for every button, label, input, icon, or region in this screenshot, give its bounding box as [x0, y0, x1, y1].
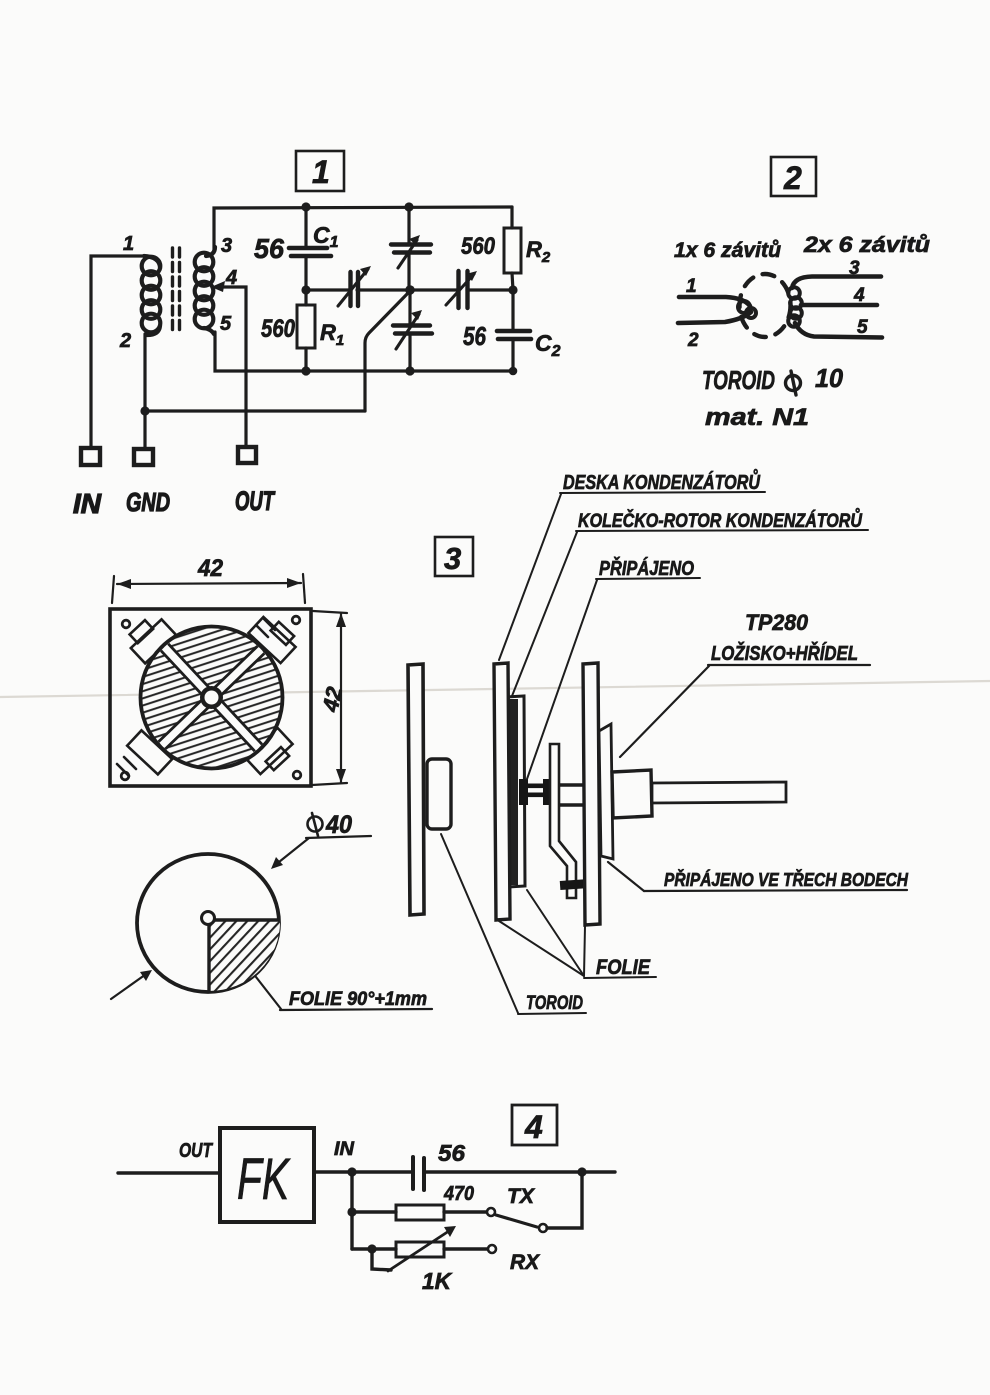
- svg-text:4: 4: [853, 285, 865, 306]
- svg-text:KOLEČKO-ROTOR KONDENZÁTORŮ: KOLEČKO-ROTOR KONDENZÁTORŮ: [578, 509, 863, 532]
- solder cross mark: [560, 879, 592, 890]
- svg-text:TOROID: TOROID: [702, 365, 775, 395]
- svg-text:560: 560: [261, 315, 295, 343]
- svg-text:1K: 1K: [422, 1268, 452, 1294]
- svg-text:IN: IN: [73, 488, 102, 519]
- rotor center hub: [200, 686, 223, 709]
- primary winding turns: [738, 301, 750, 313]
- wire branch TX: [352, 1210, 396, 1213]
- figure label box 1: [296, 151, 344, 191]
- bearing block: [612, 770, 652, 818]
- svg-text:40: 40: [325, 811, 352, 839]
- resistor 470: [396, 1205, 444, 1220]
- svg-text:TOROID: TOROID: [526, 993, 583, 1014]
- trimmer capacitor CT3 bottom center: [393, 290, 432, 371]
- rotor disc with hatched sectors: [141, 627, 283, 769]
- trimmer capacitor CT2 top center: [391, 207, 431, 290]
- rotor wheel: [506, 696, 525, 887]
- primary winding lead 1: [679, 297, 750, 306]
- terminal OUT: [238, 447, 256, 463]
- potentiometer 1K: [396, 1242, 444, 1257]
- svg-text:1: 1: [686, 276, 697, 297]
- svg-text:1: 1: [312, 154, 330, 190]
- transformer T1 secondary winding: [195, 247, 215, 334]
- wire tap pin4 to OUT: [217, 287, 246, 447]
- svg-text:FOLIE: FOLIE: [596, 956, 651, 979]
- dimension 42 right: [312, 611, 347, 785]
- figure label box 2: [771, 157, 816, 196]
- trimmer capacitor CT1: [338, 266, 371, 306]
- wire branch RX: [352, 1247, 396, 1250]
- wire IN lead: [91, 256, 146, 448]
- wire middle bus: [306, 288, 513, 291]
- secondary lead 3: [792, 277, 881, 289]
- svg-text:PŘIPÁJENO: PŘIPÁJENO: [599, 556, 694, 580]
- stator plate B: [494, 663, 510, 920]
- switch lever: [496, 1215, 537, 1227]
- axle behind strip: [560, 785, 586, 805]
- svg-text:2: 2: [687, 330, 699, 351]
- terminal IN: [81, 448, 100, 465]
- svg-text:OUT: OUT: [235, 486, 276, 516]
- svg-text:2: 2: [783, 160, 802, 196]
- phi40 label: [308, 813, 323, 836]
- dimension 42 top: [112, 555, 305, 603]
- primary winding lead 2: [678, 312, 751, 323]
- svg-text:RX: RX: [510, 1251, 541, 1274]
- svg-text:FOLIE 90°+1mm: FOLIE 90°+1mm: [289, 989, 427, 1010]
- shaft: [652, 782, 786, 803]
- wire switch to node: [547, 1172, 582, 1228]
- corner hole bottom-right: [293, 771, 301, 779]
- block FK: [220, 1128, 314, 1222]
- switch TX contact left: [487, 1208, 495, 1216]
- svg-text:4: 4: [524, 1109, 543, 1145]
- wire lower return: [144, 409, 365, 412]
- svg-text:1x 6 závitů: 1x 6 závitů: [674, 239, 781, 262]
- wire diagonal from center node: [365, 291, 410, 411]
- transformer core dashed lines: [173, 248, 180, 334]
- stator tab top-right: [248, 617, 295, 663]
- wire pin2 to GND: [143, 334, 146, 449]
- phi 10 symbol: [786, 371, 801, 395]
- wire resistor to switch: [444, 1210, 486, 1213]
- svg-text:3: 3: [221, 235, 232, 257]
- capacitor 56: [413, 1157, 424, 1190]
- toroid core dashed circle: [740, 274, 791, 337]
- transformer T1 primary winding: [142, 256, 161, 335]
- wire pot to RX contact: [444, 1247, 487, 1250]
- svg-text:56: 56: [463, 321, 486, 351]
- svg-text:56: 56: [438, 1140, 465, 1166]
- phi40 underline: [306, 836, 371, 838]
- svg-text:mat. N1: mat. N1: [705, 404, 809, 431]
- svg-text:56: 56: [254, 233, 284, 264]
- phi40 leader arrow: [271, 838, 309, 869]
- svg-text:10: 10: [815, 363, 844, 393]
- svg-text:TX: TX: [507, 1185, 536, 1208]
- wire main left: [118, 1171, 220, 1174]
- wiper return wire: [372, 1249, 391, 1270]
- svg-text:5: 5: [857, 317, 868, 338]
- junction dots: [347, 1167, 586, 1253]
- bearing flange: [599, 724, 613, 859]
- svg-text:DESKA KONDENZÁTORŮ: DESKA KONDENZÁTORŮ: [563, 468, 760, 494]
- solder I-beam joint / axle: [519, 779, 550, 805]
- contact strip bent: [550, 744, 576, 898]
- toroid side view: [427, 759, 451, 829]
- wire top bus: [214, 207, 512, 252]
- terminal GND: [134, 449, 153, 465]
- junction dots: [140, 202, 517, 415]
- stator tab bottom-left: [117, 730, 172, 776]
- figure label box 3: [435, 537, 473, 576]
- svg-text:OUT: OUT: [179, 1140, 213, 1162]
- paper fold line: [0, 681, 990, 697]
- corner hole top-right: [292, 616, 300, 624]
- RX contact: [488, 1245, 496, 1253]
- corner hole top-left: [122, 620, 130, 628]
- svg-text:GND: GND: [126, 487, 170, 517]
- stator tab top-left: [130, 619, 176, 663]
- svg-text:3: 3: [849, 258, 860, 279]
- switch TX contact right: [539, 1224, 547, 1232]
- svg-text:IN: IN: [334, 1139, 355, 1160]
- resistor R2: [504, 207, 521, 290]
- svg-text:560: 560: [461, 233, 496, 260]
- svg-text:3: 3: [444, 541, 461, 576]
- capacitor mounting plate square: [110, 609, 311, 786]
- wire FK to cap: [314, 1170, 412, 1173]
- secondary lead 5: [795, 323, 882, 338]
- trimmer capacitor CT4: [446, 271, 477, 308]
- svg-text:FK: FK: [237, 1147, 291, 1212]
- pot wiper arrow: [388, 1226, 456, 1271]
- wire bottom bus: [215, 332, 513, 371]
- svg-text:LOŽISKO+HŘÍDEL: LOŽISKO+HŘÍDEL: [711, 641, 858, 665]
- rotor foil disc phi40: [137, 854, 285, 996]
- figure label box 4: [512, 1105, 557, 1145]
- secondary lead 4: [801, 303, 877, 308]
- rotor plate C: [583, 663, 600, 925]
- wire cap to right: [424, 1170, 615, 1173]
- svg-text:TP280: TP280: [745, 610, 809, 635]
- leader folie: [256, 977, 281, 1009]
- svg-text:42: 42: [197, 555, 224, 582]
- secondary winding turns: [788, 287, 800, 299]
- wire vertical from IN node: [350, 1172, 353, 1249]
- svg-text:470: 470: [443, 1183, 474, 1205]
- svg-text:2x 6 závitů: 2x 6 závitů: [803, 232, 931, 257]
- capacitor C2: [497, 290, 531, 371]
- lower-left pointer arrow: [111, 970, 152, 999]
- resistor R1: [297, 290, 315, 371]
- corner hole bottom-left: [121, 772, 129, 780]
- stator plate A: [408, 664, 424, 915]
- stator tab bottom-right: [245, 728, 292, 774]
- capacitor C1: [289, 207, 331, 290]
- tap arrowhead: [211, 281, 225, 292]
- svg-text:1: 1: [123, 233, 134, 255]
- svg-text:2: 2: [119, 330, 131, 352]
- svg-text:PŘIPÁJENO VE TŘECH BODECH: PŘIPÁJENO VE TŘECH BODECH: [664, 869, 909, 890]
- svg-text:5: 5: [220, 313, 232, 335]
